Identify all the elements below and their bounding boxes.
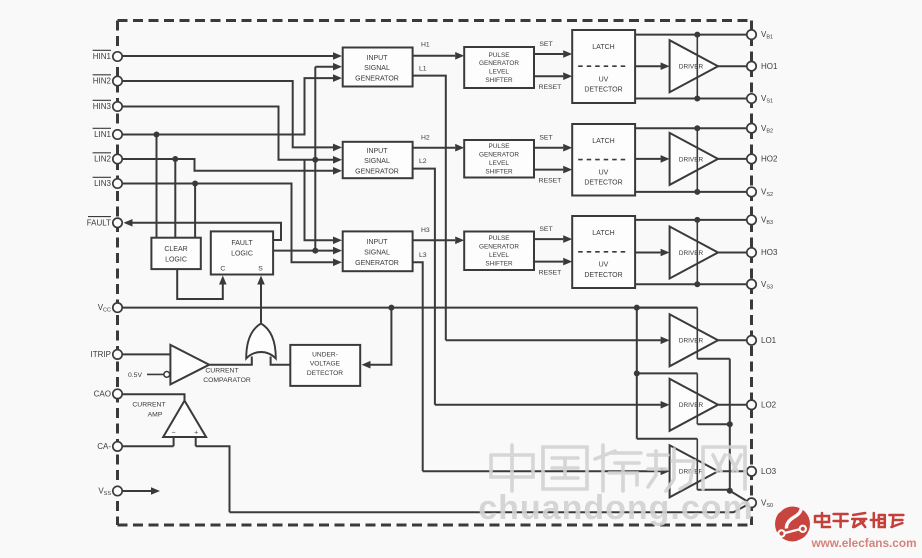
- terminal VB1: [747, 30, 773, 41]
- wire H2 ISG2 to PG2 with label H2: [413, 135, 465, 152]
- svg-text:INPUT: INPUT: [367, 148, 389, 155]
- svg-text:DETECTOR: DETECTOR: [584, 180, 622, 187]
- terminal HIN1: [93, 50, 123, 61]
- IC boundary dashed border left: [116, 21, 119, 526]
- svg-text:INPUT: INPUT: [367, 55, 389, 62]
- svg-text:AMP: AMP: [148, 411, 163, 418]
- terminal LIN2: [93, 153, 123, 164]
- svg-text:GENERATOR: GENERATOR: [479, 151, 519, 158]
- svg-text:FAULT: FAULT: [231, 240, 253, 247]
- wire LIN3 to ISG3 input bottom: [123, 184, 343, 267]
- block UNDER-VOLTAGE DETECTOR (U-UV): [290, 345, 360, 386]
- wire VCC branch to UV detector input: [362, 308, 392, 369]
- svg-text:GENERATOR: GENERATOR: [355, 169, 399, 176]
- wire fault-clear bus vertical: [314, 67, 316, 251]
- svg-text:DETECTOR: DETECTOR: [584, 272, 622, 279]
- svg-text:CAO: CAO: [94, 390, 111, 399]
- svg-text:H3: H3: [421, 227, 430, 234]
- terminal HO1: [747, 61, 778, 70]
- svg-text:VOLTAGE: VOLTAGE: [310, 361, 341, 368]
- svg-text:DETECTOR: DETECTOR: [307, 370, 343, 377]
- svg-text:0.5V: 0.5V: [128, 372, 142, 379]
- svg-text:ITRIP: ITRIP: [91, 350, 111, 359]
- watermark chuandong gray CJK text: [491, 445, 745, 491]
- svg-text:CA-: CA-: [97, 442, 111, 451]
- svg-text:RESET: RESET: [539, 84, 562, 91]
- terminal VB2: [747, 124, 773, 135]
- wire non-inverting input to VS0 rail: [196, 446, 230, 512]
- wire return diagonal to VS0: [730, 491, 748, 502]
- svg-text:LIN2: LIN2: [94, 155, 111, 164]
- svg-text:SIGNAL: SIGNAL: [364, 65, 390, 72]
- svg-text:HO2: HO2: [761, 155, 778, 164]
- svg-text:LO3: LO3: [761, 467, 777, 476]
- svg-text:VS0: VS0: [761, 498, 773, 509]
- node LIN3 branch dot: [192, 181, 198, 187]
- svg-text:VS1: VS1: [761, 94, 773, 105]
- svg-text:RESET: RESET: [539, 178, 562, 185]
- node VCC to low-side rail dot: [634, 305, 640, 311]
- wire FAULT LOGIC to FAULT pin: [124, 219, 282, 240]
- terminal VS3: [747, 280, 773, 291]
- svg-text:LIN3: LIN3: [94, 179, 111, 188]
- block INPUT SIGNAL GENERATOR 1 (U-ISG1): [343, 48, 413, 87]
- svg-text:LATCH: LATCH: [592, 44, 614, 51]
- svg-text:LEVEL: LEVEL: [489, 69, 509, 76]
- svg-text:LOGIC: LOGIC: [165, 257, 187, 264]
- terminal LIN1: [93, 128, 123, 139]
- svg-text:DETECTOR: DETECTOR: [584, 87, 622, 94]
- terminal CA-: [97, 442, 122, 451]
- terminal HO3: [747, 248, 778, 257]
- label 0.5V reference: [128, 372, 170, 380]
- svg-text:DRIVER: DRIVER: [679, 64, 704, 71]
- svg-text:−: −: [172, 429, 176, 436]
- node LIN1 branch dot: [154, 132, 160, 138]
- terminal CAO: [94, 389, 123, 398]
- svg-text:PULSE: PULSE: [489, 235, 510, 242]
- block PULSE GENERATOR LEVEL SHIFTER 1 (U-PG1): [464, 47, 534, 88]
- svg-text:INPUT: INPUT: [367, 239, 389, 246]
- svg-text:LATCH: LATCH: [592, 230, 614, 237]
- driver U-D6 (low side LO3): [423, 439, 748, 498]
- svg-text:LEVEL: LEVEL: [489, 252, 509, 259]
- driver U-D4 (low side LO1): [446, 308, 748, 367]
- terminal LO2: [747, 400, 777, 409]
- amplifier U-CA (CURRENT AMP): [123, 394, 207, 446]
- terminal LIN3: [93, 177, 123, 188]
- svg-text:SET: SET: [539, 41, 552, 48]
- terminal VCC: [98, 303, 122, 314]
- wire VCC rail: [123, 307, 698, 309]
- terminal ITRIP: [91, 350, 123, 359]
- svg-text:VS3: VS3: [761, 280, 773, 291]
- IC boundary dashed border bottom: [118, 524, 752, 527]
- comparator U-CMP (CURRENT COMPARATOR): [123, 345, 251, 385]
- terminal VS1: [747, 94, 773, 105]
- logo elecfans CJK name: [815, 513, 903, 527]
- svg-text:DRIVER: DRIVER: [679, 402, 704, 409]
- node fault-clear ISG2 dot: [312, 157, 318, 163]
- wire fault-clear to ISG1 input2: [315, 63, 342, 71]
- block INPUT SIGNAL GENERATOR 2 (U-ISG2): [343, 142, 413, 178]
- wire L3 output with label L3: [413, 252, 427, 471]
- gate U-OR (fault OR gate): [246, 324, 276, 359]
- svg-text:HIN2: HIN2: [93, 77, 112, 86]
- svg-text:L1: L1: [419, 66, 427, 73]
- svg-text:RESET: RESET: [539, 270, 562, 277]
- svg-text:COMPARATOR: COMPARATOR: [203, 377, 251, 384]
- svg-text:UNDER-: UNDER-: [312, 351, 338, 358]
- block LATCH / UV DETECTOR 2 (U-L2): [572, 124, 635, 196]
- wire SET/RESET channel3: [534, 226, 572, 277]
- wire VSS stub arrow: [123, 487, 161, 495]
- IC boundary dashed border top: [118, 19, 752, 22]
- terminal FAULT: [87, 217, 123, 228]
- node fault-clear ISG3 dot: [312, 248, 318, 254]
- svg-text:GENERATOR: GENERATOR: [355, 76, 399, 83]
- svg-text:VCC: VCC: [98, 303, 111, 314]
- svg-text:DRIVER: DRIVER: [679, 156, 704, 163]
- svg-text:S: S: [258, 266, 263, 273]
- block PULSE GENERATOR LEVEL SHIFTER 3 (U-PG3): [464, 232, 534, 271]
- svg-text:www.elecfans.com: www.elecfans.com: [810, 536, 916, 550]
- node LO2 return dot: [727, 421, 733, 427]
- svg-text:SIGNAL: SIGNAL: [364, 158, 390, 165]
- node LO2 rail dot: [634, 370, 640, 376]
- node VCC to UV detector branch dot: [388, 305, 394, 311]
- logo elecfans icon: [775, 502, 810, 546]
- wire L2 output with label L2: [413, 158, 435, 405]
- block PULSE GENERATOR LEVEL SHIFTER 2 (U-PG2): [464, 140, 534, 178]
- block FAULT LOGIC (U-FLT): [211, 231, 273, 274]
- block LATCH / UV DETECTOR 3 (U-L3): [572, 216, 635, 288]
- node LIN2 branch dot: [172, 156, 178, 162]
- terminal VS0: [747, 498, 773, 509]
- svg-text:chuandong.com: chuandong.com: [478, 489, 754, 527]
- svg-text:SET: SET: [539, 226, 552, 233]
- svg-text:DRIVER: DRIVER: [679, 338, 704, 345]
- wire comparator output to OR gate: [209, 357, 252, 365]
- svg-text:CURRENT: CURRENT: [132, 401, 165, 408]
- IC boundary dashed border right: [750, 21, 753, 526]
- svg-text:HIN1: HIN1: [93, 52, 112, 61]
- watermark chuandong.com url: [478, 489, 754, 527]
- svg-text:GENERATOR: GENERATOR: [479, 60, 519, 67]
- wire L1 output with label L1: [413, 66, 446, 341]
- node LO3 return dot: [727, 488, 733, 494]
- driver U-D5 (low side LO2): [435, 373, 748, 430]
- svg-text:CLEAR: CLEAR: [164, 246, 187, 253]
- wire SET/RESET channel2: [534, 135, 572, 185]
- terminal VSS: [98, 486, 122, 497]
- terminal VB3: [747, 215, 773, 226]
- wire LIN1 to ISG1 input3: [123, 74, 343, 134]
- svg-text:SET: SET: [539, 135, 552, 142]
- driver U-D1 (high side 1) with VB1/VS1 rails: [635, 32, 747, 102]
- svg-text:VS2: VS2: [761, 188, 773, 199]
- svg-text:VSS: VSS: [98, 487, 111, 498]
- terminal LO1: [747, 336, 777, 345]
- wire LIN1 branch to CLEAR LOGIC: [156, 135, 158, 239]
- svg-text:UV: UV: [599, 262, 609, 269]
- svg-text:VB2: VB2: [761, 124, 773, 135]
- svg-text:LO1: LO1: [761, 336, 777, 345]
- svg-text:HIN3: HIN3: [93, 102, 112, 111]
- wire CA- to inverting input: [123, 445, 174, 447]
- block INPUT SIGNAL GENERATOR 3 (U-ISG3): [343, 231, 413, 271]
- wire VS0 bottom rail: [230, 505, 748, 513]
- svg-text:L2: L2: [419, 158, 427, 165]
- svg-text:HO3: HO3: [761, 248, 778, 257]
- svg-text:VB1: VB1: [761, 30, 773, 41]
- svg-text:SHIFTER: SHIFTER: [485, 77, 513, 84]
- wire low-side common return vertical: [729, 359, 731, 491]
- wire LIN2 branch to CLEAR LOGIC: [174, 159, 176, 239]
- svg-text:GENERATOR: GENERATOR: [355, 260, 399, 267]
- terminal HO2: [747, 154, 778, 163]
- wire H3 ISG3 to PG3 with label H3: [413, 227, 465, 244]
- svg-text:GENERATOR: GENERATOR: [479, 243, 519, 250]
- wire HIN3 to ISG2-middle-row then ISG3 input1: [123, 107, 343, 245]
- wire HIN2 to ISG2 input1: [123, 81, 343, 151]
- svg-text:PULSE: PULSE: [489, 143, 510, 150]
- svg-text:L3: L3: [419, 252, 427, 259]
- svg-text:LO2: LO2: [761, 400, 777, 409]
- wire SET/RESET channel1: [534, 41, 572, 91]
- wire H1 ISG1 to PG1 with label H1: [413, 42, 465, 60]
- wire LIN3 branch to CLEAR LOGIC: [194, 184, 196, 239]
- svg-text:H2: H2: [421, 135, 430, 142]
- wire FAULT LOGIC output to ISG3 input2: [273, 247, 342, 255]
- svg-text:PULSE: PULSE: [489, 52, 510, 59]
- svg-text:H1: H1: [421, 42, 430, 49]
- svg-text:C: C: [220, 266, 225, 273]
- driver U-D2 (high side 2) with VB2/VS2 rails: [635, 125, 747, 195]
- svg-text:UV: UV: [599, 169, 609, 176]
- svg-text:LATCH: LATCH: [592, 138, 614, 145]
- svg-text:UV: UV: [599, 76, 609, 83]
- wire VCC low-side vertical rail: [636, 308, 638, 439]
- svg-text:HO1: HO1: [761, 62, 778, 71]
- driver U-D3 (high side 3) with VB3/VS3 rails: [635, 217, 747, 287]
- wire UV detector output to OR gate: [271, 357, 291, 365]
- logo elecfans url: [810, 536, 916, 550]
- wire OR gate output to S input: [257, 276, 265, 323]
- block CLEAR LOGIC (U-CLR): [151, 238, 200, 269]
- svg-text:LIN1: LIN1: [94, 130, 111, 139]
- svg-text:VB3: VB3: [761, 216, 773, 227]
- terminal HIN2: [93, 75, 123, 86]
- svg-text:LEVEL: LEVEL: [489, 160, 509, 167]
- svg-text:SHIFTER: SHIFTER: [485, 260, 513, 267]
- terminal LO3: [747, 467, 777, 476]
- svg-text:CURRENT: CURRENT: [205, 368, 238, 375]
- terminal HIN3: [93, 100, 123, 111]
- svg-text:+: +: [194, 429, 198, 436]
- svg-text:FAULT: FAULT: [87, 218, 111, 227]
- wire LIN2 to ISG2 input bottom: [123, 159, 343, 175]
- svg-text:LOGIC: LOGIC: [231, 251, 253, 258]
- wire CLEAR LOGIC to C input: [177, 269, 226, 299]
- terminal VS2: [747, 187, 773, 198]
- block LATCH / UV DETECTOR 1 (U-L1): [572, 30, 635, 103]
- svg-text:DRIVER: DRIVER: [679, 250, 704, 257]
- svg-text:SIGNAL: SIGNAL: [364, 250, 390, 257]
- wire HIN1 to ISG1 input1: [123, 52, 343, 60]
- svg-text:SHIFTER: SHIFTER: [485, 168, 513, 175]
